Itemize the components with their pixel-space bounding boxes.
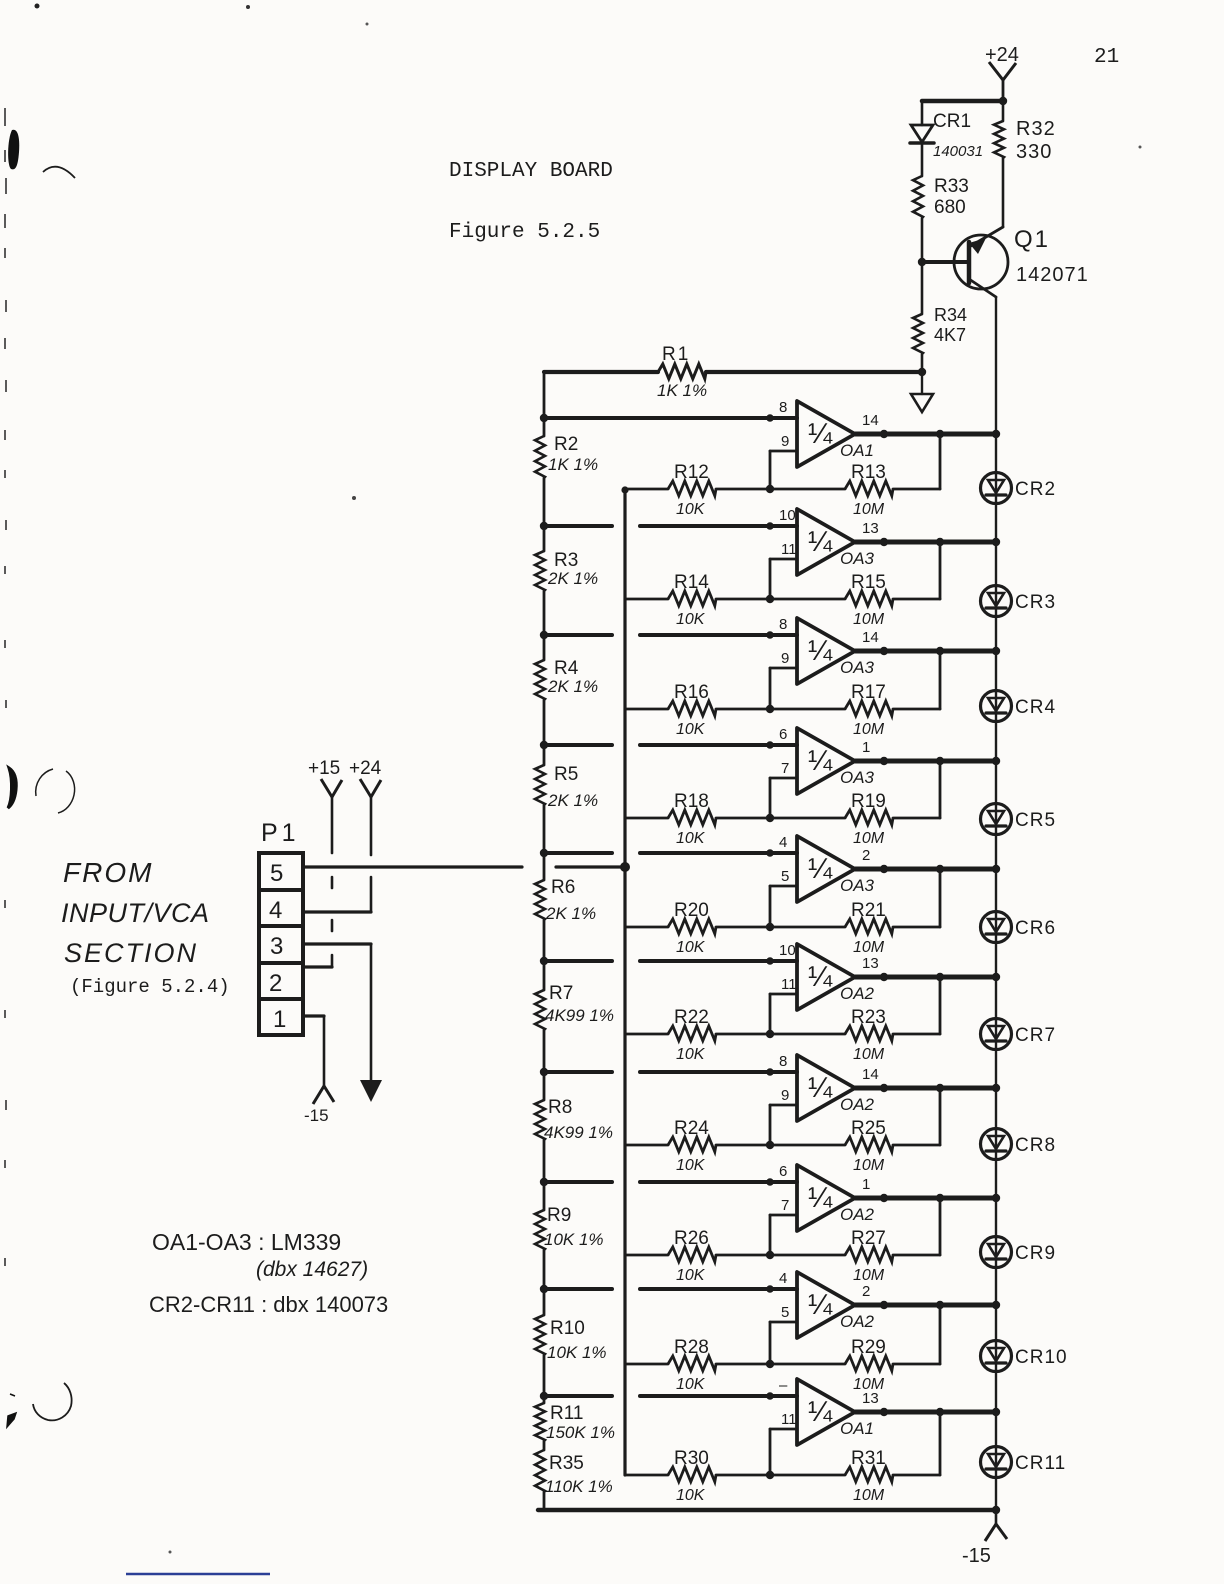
node stage 2 output dots (880, 538, 1000, 546)
scan artifact: circle bottom-left (7, 1383, 72, 1427)
svg-text:4K7: 4K7 (934, 325, 966, 345)
svg-text:OA1: OA1 (840, 441, 874, 460)
svg-text:R26: R26 (674, 1228, 709, 1249)
svg-text:DISPLAY BOARD: DISPLAY BOARD (449, 160, 613, 183)
svg-text:140031: 140031 (933, 143, 983, 160)
pin 6 label stage 8 (779, 1163, 787, 1180)
svg-text:5: 5 (781, 868, 789, 885)
wire stage 10 non-inverting input tap (544, 1394, 797, 1398)
wire stage 1 inverting input stub (770, 451, 797, 489)
power -15 symbol bottom (962, 1510, 1007, 1567)
svg-text:4: 4 (779, 1270, 787, 1287)
svg-text:8: 8 (779, 1053, 787, 1070)
node stage 9 inverting junction (766, 1360, 774, 1368)
svg-text:11: 11 (781, 541, 797, 558)
pin 13 label stage 10 (862, 1390, 879, 1407)
svg-text:CR2: CR2 (1015, 479, 1056, 500)
resistor R6 2K 1% (535, 805, 596, 923)
svg-text:680: 680 (934, 197, 966, 218)
node stage 5 inverting junction (766, 923, 774, 931)
node stage 9 input pin dot (766, 1285, 774, 1293)
pin 6 label stage 4 (779, 726, 787, 743)
svg-text:R35: R35 (549, 1453, 584, 1474)
transistor Q1 142071 (922, 226, 1089, 297)
wire stage 2 non-inverting input tap (544, 524, 797, 528)
power -15 symbol (P1) (304, 1016, 334, 1125)
wire stage 3 output (855, 649, 996, 654)
wire signal bus vertical (623, 490, 626, 1475)
pin 11 label stage 6 (781, 976, 797, 993)
svg-text:OA3: OA3 (840, 658, 875, 677)
wire stage 9 non-inverting input tap (544, 1287, 797, 1291)
wire stage 5 output (855, 867, 996, 872)
svg-text:10K: 10K (676, 939, 706, 956)
svg-text:R8: R8 (548, 1097, 572, 1118)
LED CR5 (981, 804, 1057, 835)
wire ladder top (543, 372, 546, 418)
wire stage 6 feedback vertical (939, 977, 942, 1034)
pin 2 label stage 9 (862, 1283, 870, 1300)
LED CR7 (981, 1019, 1057, 1050)
svg-text:R9: R9 (547, 1205, 571, 1226)
resistor R30 10K (625, 1448, 770, 1504)
svg-text:10K: 10K (676, 1376, 706, 1393)
node R34 / R1 junction (918, 368, 926, 376)
svg-text:10K: 10K (676, 1487, 706, 1504)
svg-text:10M: 10M (853, 939, 885, 956)
svg-text:10K: 10K (676, 1046, 706, 1063)
svg-text:R21: R21 (851, 900, 886, 921)
svg-text:10M: 10M (853, 1487, 885, 1504)
svg-text:R28: R28 (674, 1337, 709, 1358)
node stage 8 input pin dot (766, 1178, 774, 1186)
node stage 9 output dots (880, 1301, 1000, 1309)
page number 21 (1094, 46, 1119, 69)
node +24 rail junction (999, 97, 1007, 105)
svg-text:4K99 1%: 4K99 1% (544, 1123, 613, 1142)
svg-text:8: 8 (779, 616, 787, 633)
wire stage 6 output (855, 975, 996, 980)
svg-text:10K: 10K (676, 1267, 706, 1284)
svg-text:2K 1%: 2K 1% (547, 569, 598, 588)
svg-text:R15: R15 (851, 572, 886, 593)
svg-text:10K 1%: 10K 1% (544, 1230, 604, 1249)
LED CR10 (981, 1341, 1068, 1372)
op-amp OA2 stage 9 (1/4) (797, 1272, 875, 1338)
node stage 10 output dots (880, 1408, 1000, 1416)
resistor R4 2K 1% (535, 591, 598, 700)
svg-text:5: 5 (270, 860, 283, 887)
node stage 4 inverting junction (766, 814, 774, 822)
svg-text:FROM: FROM (63, 857, 153, 888)
pin 9 label stage 1 (781, 433, 789, 450)
svg-text:4K99 1%: 4K99 1% (545, 1006, 614, 1025)
wire stage 4 inverting input stub (770, 778, 797, 818)
svg-text:CR11: CR11 (1015, 1453, 1066, 1474)
svg-text:3: 3 (270, 933, 283, 960)
resistor R15 10M (770, 572, 940, 628)
svg-text:R24: R24 (674, 1118, 709, 1139)
node stage 2 inverting junction (766, 595, 774, 603)
wire stage 2 feedback vertical (939, 542, 942, 599)
wire stage 1 output (855, 432, 996, 437)
svg-text:9: 9 (781, 650, 789, 667)
svg-text:+24: +24 (349, 758, 382, 779)
svg-text:4: 4 (269, 897, 282, 924)
svg-text:Figure 5.2.5: Figure 5.2.5 (449, 221, 600, 244)
svg-text:6: 6 (779, 1163, 787, 1180)
resistor R22 10K (625, 1007, 770, 1063)
svg-text:1K 1%: 1K 1% (657, 381, 707, 400)
node stage 1 inverting junction (766, 485, 774, 493)
svg-text:4: 4 (779, 834, 787, 851)
LED CR8 (981, 1129, 1057, 1160)
wire stage 3 inverting input stub (770, 668, 797, 709)
wire stage 9 output (855, 1303, 996, 1308)
svg-text:R3: R3 (554, 550, 578, 571)
op-amp OA1 stage 1 (1/4) (797, 401, 874, 467)
svg-text:¼: ¼ (808, 745, 833, 777)
wire stage 7 output (855, 1086, 996, 1091)
node stage 6 input pin dot (766, 957, 774, 965)
pin 1 label stage 4 (862, 739, 870, 756)
pin 13 label stage 2 (862, 520, 879, 537)
node signal bus top corner (621, 486, 628, 493)
svg-text:R23: R23 (851, 1007, 886, 1028)
LED CR9 (981, 1237, 1057, 1268)
wire stage 3 non-inverting input tap (544, 633, 797, 637)
svg-text:CR3: CR3 (1015, 592, 1056, 613)
wire LED column (Q1 emitter rail) (995, 297, 997, 1510)
svg-text:10: 10 (779, 942, 796, 959)
pin 7 label stage 4 (781, 760, 789, 777)
note CR2-CR11 : dbx 140073 (149, 1292, 388, 1317)
svg-text:2: 2 (269, 970, 282, 997)
svg-text:142071: 142071 (1016, 264, 1089, 286)
svg-text:R1: R1 (662, 344, 690, 365)
svg-text:7: 7 (781, 1197, 789, 1214)
svg-text:R6: R6 (551, 877, 575, 898)
node Q1 base junction (918, 258, 926, 266)
node stage 7 inverting junction (766, 1141, 774, 1149)
svg-text:R2: R2 (554, 434, 578, 455)
title DISPLAY BOARD (449, 160, 613, 183)
node stage 5 input pin dot (766, 849, 774, 857)
svg-text:R29: R29 (851, 1337, 886, 1358)
wire stage 2 output (855, 540, 996, 545)
wire P1 pin 2 to +15 (303, 965, 332, 968)
wire stage 2 inverting input stub (770, 559, 797, 599)
svg-text:2K 1%: 2K 1% (547, 677, 598, 696)
wire stage 3 feedback vertical (939, 651, 942, 709)
label FROM INPUT/VCA SECTION (61, 857, 210, 968)
svg-text:R31: R31 (851, 1448, 886, 1469)
ground symbol (911, 372, 933, 412)
scan artifact: left edge blob (8, 130, 75, 178)
LED CR6 (981, 912, 1057, 943)
svg-text:-15: -15 (304, 1106, 329, 1125)
op-amp OA2 stage 8 (1/4) (797, 1165, 875, 1231)
node stage 4 input pin dot (766, 741, 774, 749)
pin 10 label stage 2 (779, 507, 796, 524)
wire stage 10 output (855, 1410, 996, 1415)
svg-text:¼: ¼ (808, 418, 833, 450)
power +24 symbol (P1) (349, 758, 382, 912)
svg-text:CR4: CR4 (1015, 697, 1056, 718)
svg-text:8: 8 (779, 399, 787, 416)
svg-text:–: – (779, 1377, 788, 1394)
resistor R1 1K 1% (544, 344, 922, 400)
power +15 symbol (308, 758, 342, 967)
resistor R31 10M (770, 1448, 940, 1504)
svg-text:10M: 10M (853, 721, 885, 738)
resistor R27 10M (770, 1228, 940, 1284)
resistor R24 10K (625, 1118, 770, 1174)
svg-text:R11: R11 (550, 1403, 583, 1424)
resistor R14 10K (625, 572, 770, 628)
connector P1 (259, 819, 303, 1035)
svg-text:10K: 10K (676, 830, 706, 847)
resistor R2 1K 1% (535, 418, 598, 478)
svg-text:R14: R14 (674, 572, 709, 593)
scan artifact: left edge dashes (5, 108, 6, 1266)
pin 5 label stage 5 (781, 868, 789, 885)
svg-text:10M: 10M (853, 611, 885, 628)
svg-text:330: 330 (1016, 141, 1052, 163)
svg-text:14: 14 (862, 412, 879, 429)
svg-text:R22: R22 (674, 1007, 709, 1028)
node signal bus input junction (620, 862, 630, 872)
node stage 3 input pin dot (766, 631, 774, 639)
svg-text:10M: 10M (853, 1267, 885, 1284)
pin 9 label stage 7 (781, 1087, 789, 1104)
svg-text:R13: R13 (851, 462, 886, 483)
scan artifact: blue line bottom-left (126, 1573, 270, 1575)
wire +24 rail to CR1 branch (922, 99, 1003, 104)
svg-text:10M: 10M (853, 830, 885, 847)
wire stage 8 inverting input stub (770, 1215, 797, 1255)
wire ladder bottom (543, 1492, 546, 1510)
svg-text:9: 9 (781, 433, 789, 450)
svg-text:CR8: CR8 (1015, 1135, 1056, 1156)
pin 14 label stage 7 (862, 1066, 879, 1083)
svg-text:1: 1 (273, 1006, 286, 1033)
svg-text:5: 5 (781, 1304, 789, 1321)
wire stage 6 inverting input stub (770, 994, 797, 1034)
svg-text:13: 13 (862, 1390, 879, 1407)
svg-text:R30: R30 (674, 1448, 709, 1469)
pin 11 label stage 10 (781, 1411, 797, 1428)
resistor R28 10K (625, 1337, 770, 1393)
ground arrow from P1 pin 3 (360, 944, 382, 1102)
svg-text:10M: 10M (853, 1046, 885, 1063)
wire stage 1 feedback vertical (939, 434, 942, 489)
svg-text:(dbx 14627): (dbx 14627) (256, 1258, 368, 1281)
svg-text:150K 1%: 150K 1% (546, 1423, 615, 1442)
wire stage 9 inverting input stub (770, 1322, 797, 1364)
note OA1-OA3 : LM339 (152, 1229, 341, 1255)
svg-text:R32: R32 (1016, 118, 1056, 140)
resistor R21 10M (770, 900, 940, 956)
svg-text:10M: 10M (853, 501, 885, 518)
svg-text:OA1: OA1 (840, 1419, 874, 1438)
op-amp OA3 stage 2 (1/4) (797, 509, 875, 575)
node ladder taps (540, 414, 548, 1400)
svg-text:R16: R16 (674, 682, 709, 703)
svg-text:OA3: OA3 (840, 768, 875, 787)
node stage 7 input pin dot (766, 1068, 774, 1076)
svg-text:2K 1%: 2K 1% (545, 904, 596, 923)
wire stage 4 output (855, 759, 996, 764)
svg-text:10K: 10K (676, 1157, 706, 1174)
node stage 8 inverting junction (766, 1251, 774, 1259)
svg-text:R19: R19 (851, 791, 886, 812)
node stage 10 input pin dot (766, 1392, 774, 1400)
svg-text:R5: R5 (554, 764, 578, 785)
svg-text:1: 1 (862, 1176, 870, 1193)
svg-text:2: 2 (862, 847, 870, 864)
resistor R13 10M (770, 462, 940, 518)
pin 14 label stage 1 (862, 412, 879, 429)
wire stage 5 non-inverting input tap (544, 851, 797, 855)
svg-text:(Figure 5.2.4): (Figure 5.2.4) (70, 976, 230, 998)
LED CR4 (981, 691, 1057, 722)
svg-text:R20: R20 (674, 900, 709, 921)
wire stage 8 output (855, 1196, 996, 1201)
node stage 6 output dots (880, 973, 1000, 981)
svg-text:R34: R34 (934, 305, 967, 325)
wire P1 pin 4 to +24 (303, 910, 371, 913)
svg-text:¼: ¼ (808, 1289, 833, 1321)
caption (Figure 5.2.4) (70, 976, 230, 998)
wire stage 4 non-inverting input tap (544, 743, 797, 747)
node stage 10 inverting junction (766, 1471, 774, 1479)
op-amp OA1 stage 10 (1/4) (797, 1379, 874, 1445)
node stage 4 output dots (880, 757, 1000, 765)
svg-text:P1: P1 (261, 819, 300, 847)
svg-text:R27: R27 (851, 1228, 886, 1249)
wire from P1 pin 5 to signal bus (303, 865, 625, 868)
pin 14 label stage 3 (862, 629, 879, 646)
wire stage 7 feedback vertical (939, 1088, 942, 1145)
pin 11 label stage 2 (781, 541, 797, 558)
svg-text:OA2: OA2 (840, 1205, 875, 1224)
pin 8 label stage 1 (779, 399, 787, 416)
resistor R20 10K (625, 900, 770, 956)
resistor R35 110K 1% (535, 1441, 613, 1496)
node stage 2 input pin dot (766, 522, 774, 530)
svg-text:¼: ¼ (808, 526, 833, 558)
svg-text:¼: ¼ (808, 1072, 833, 1104)
resistor R34 4K7 (913, 262, 967, 372)
svg-text:2: 2 (862, 1283, 870, 1300)
LED CR2 (981, 473, 1057, 504)
svg-text:R12: R12 (674, 462, 709, 483)
wire stage 5 feedback vertical (939, 869, 942, 927)
wire stage 9 feedback vertical (939, 1305, 942, 1364)
svg-text:11: 11 (781, 1411, 797, 1428)
op-amp OA3 stage 4 (1/4) (797, 728, 875, 794)
svg-text:2K 1%: 2K 1% (547, 791, 598, 810)
svg-text:10: 10 (779, 507, 796, 524)
pin 8 label stage 7 (779, 1053, 787, 1070)
svg-text:R25: R25 (851, 1118, 886, 1139)
wire bottom rail to -15 (538, 1508, 996, 1512)
svg-text:1: 1 (862, 739, 870, 756)
node stage 1 output dots (880, 430, 1000, 438)
resistor R8 4K99 1% (535, 1030, 613, 1142)
caption Figure 5.2.5 (449, 221, 600, 244)
svg-text:CR7: CR7 (1015, 1025, 1056, 1046)
svg-text:10K: 10K (676, 611, 706, 628)
svg-text:21: 21 (1094, 46, 1119, 69)
node stage 1 input pin dot (766, 414, 774, 422)
power +24 symbol (985, 44, 1019, 101)
LED CR3 (981, 586, 1057, 617)
pin 5 label stage 9 (781, 1304, 789, 1321)
svg-text:OA2: OA2 (840, 1095, 875, 1114)
svg-text:CR5: CR5 (1015, 810, 1056, 831)
resistor R25 10M (770, 1118, 940, 1174)
wire stage 5 inverting input stub (770, 886, 797, 927)
svg-text:+15: +15 (308, 758, 340, 779)
svg-text:6: 6 (779, 726, 787, 743)
svg-text:CR6: CR6 (1015, 918, 1056, 939)
svg-text:¼: ¼ (808, 1396, 833, 1428)
resistor R5 2K 1% (535, 700, 598, 810)
resistor R10 10K 1% (535, 1250, 607, 1362)
resistor R32 330 (994, 101, 1056, 227)
scan artifact: hole punch crescent mid-left (8, 768, 75, 813)
wire P1 pin 3 to arrow (303, 942, 371, 945)
svg-text:OA2: OA2 (840, 1312, 875, 1331)
wire stage 8 non-inverting input tap (544, 1180, 797, 1184)
diode CR1 140031 (910, 101, 983, 176)
svg-text:110K 1%: 110K 1% (545, 1477, 613, 1496)
svg-text:10M: 10M (853, 1157, 885, 1174)
resistor R12 10K (625, 462, 770, 518)
pin 4 label stage 5 (779, 834, 787, 851)
resistor R19 10M (770, 791, 940, 847)
svg-text:CR9: CR9 (1015, 1243, 1056, 1264)
resistor R18 10K (625, 791, 770, 847)
resistor R11 150K 1% (535, 1355, 615, 1442)
pin 7 label stage 8 (781, 1197, 789, 1214)
pin – label stage 10 (779, 1377, 788, 1394)
wire stage 8 feedback vertical (939, 1198, 942, 1255)
svg-text:-15: -15 (962, 1545, 991, 1567)
resistor R23 10M (770, 1007, 940, 1063)
resistor R16 10K (625, 682, 770, 738)
svg-text:10K 1%: 10K 1% (547, 1343, 607, 1362)
svg-text:14: 14 (862, 1066, 879, 1083)
svg-text:R17: R17 (851, 682, 886, 703)
svg-text:CR10: CR10 (1015, 1347, 1068, 1368)
resistor R29 10M (770, 1337, 940, 1393)
note (dbx 14627) (256, 1258, 368, 1281)
svg-text:7: 7 (781, 760, 789, 777)
svg-text:CR2-CR11 : dbx 140073: CR2-CR11 : dbx 140073 (149, 1292, 388, 1317)
node bottom rail junction (992, 1506, 1000, 1514)
wire stage 10 inverting input stub (770, 1429, 797, 1475)
svg-text:9: 9 (781, 1087, 789, 1104)
svg-text:Q1: Q1 (1014, 226, 1050, 253)
svg-text:10K: 10K (676, 721, 706, 738)
svg-text:OA3: OA3 (840, 876, 875, 895)
svg-text:R4: R4 (554, 658, 579, 679)
pin 8 label stage 3 (779, 616, 787, 633)
resistor R33 680 (913, 176, 969, 262)
